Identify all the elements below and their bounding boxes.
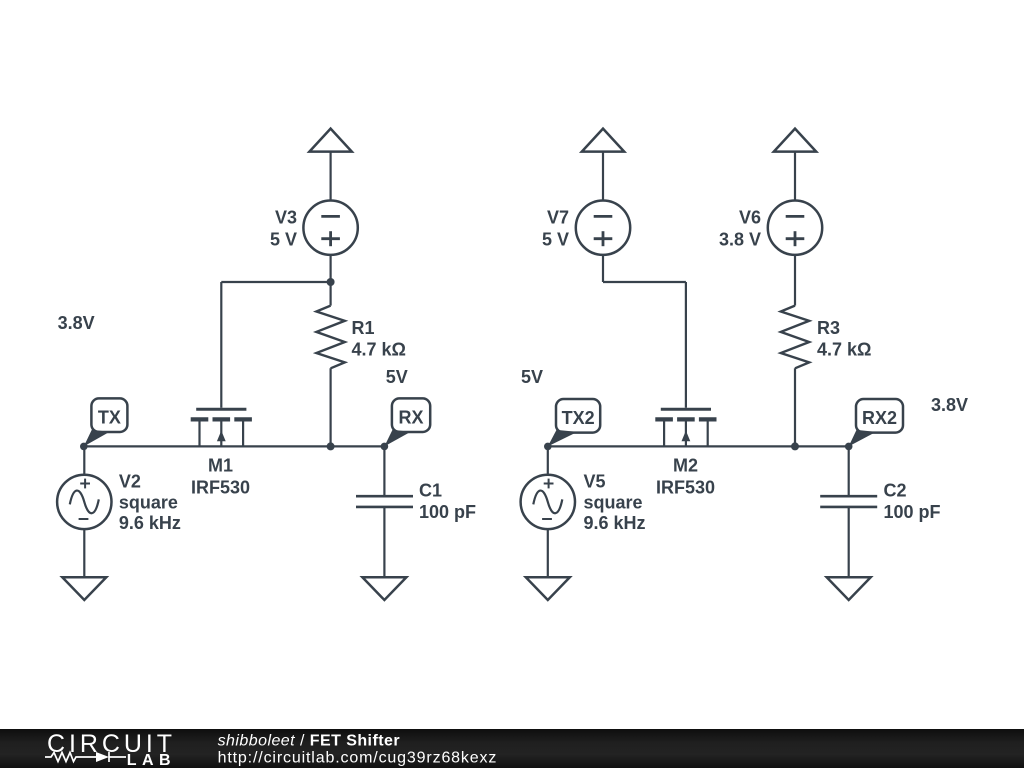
svg-text:shibboleet / FET Shifter: shibboleet / FET Shifter bbox=[218, 732, 400, 749]
svg-text:4.7 kΩ: 4.7 kΩ bbox=[817, 340, 871, 360]
svg-text:V6: V6 bbox=[739, 207, 761, 227]
svg-text:3.8V: 3.8V bbox=[931, 395, 968, 415]
svg-text:square: square bbox=[119, 492, 178, 512]
svg-text:M1: M1 bbox=[208, 456, 233, 476]
svg-text:TX2: TX2 bbox=[562, 408, 595, 428]
svg-text:IRF530: IRF530 bbox=[191, 477, 250, 497]
svg-text:V2: V2 bbox=[119, 472, 141, 492]
svg-text:C1: C1 bbox=[419, 480, 442, 500]
svg-text:RX: RX bbox=[399, 408, 424, 428]
svg-text:TX: TX bbox=[98, 408, 121, 428]
svg-text:M2: M2 bbox=[673, 456, 698, 476]
svg-text:V3: V3 bbox=[275, 207, 297, 227]
svg-text:LAB: LAB bbox=[127, 752, 176, 768]
svg-text:9.6 kHz: 9.6 kHz bbox=[119, 513, 181, 533]
svg-text:V7: V7 bbox=[547, 207, 569, 227]
svg-text:square: square bbox=[584, 492, 643, 512]
svg-text:RX2: RX2 bbox=[862, 408, 897, 428]
svg-text:R1: R1 bbox=[352, 318, 375, 338]
svg-text:100 pF: 100 pF bbox=[884, 502, 941, 522]
svg-text:IRF530: IRF530 bbox=[656, 477, 715, 497]
svg-text:C2: C2 bbox=[884, 480, 907, 500]
svg-text:3.8V: 3.8V bbox=[58, 313, 95, 333]
svg-text:4.7 kΩ: 4.7 kΩ bbox=[352, 340, 406, 360]
svg-text:http://circuitlab.com/cug39rz6: http://circuitlab.com/cug39rz68kexz bbox=[218, 750, 498, 767]
svg-text:9.6 kHz: 9.6 kHz bbox=[584, 513, 646, 533]
svg-text:5 V: 5 V bbox=[542, 230, 569, 250]
svg-text:5V: 5V bbox=[521, 367, 543, 387]
svg-text:3.8 V: 3.8 V bbox=[719, 230, 761, 250]
svg-text:5V: 5V bbox=[386, 367, 408, 387]
svg-text:R3: R3 bbox=[817, 318, 840, 338]
svg-text:V5: V5 bbox=[584, 472, 606, 492]
svg-text:5 V: 5 V bbox=[270, 230, 297, 250]
svg-text:100 pF: 100 pF bbox=[419, 502, 476, 522]
